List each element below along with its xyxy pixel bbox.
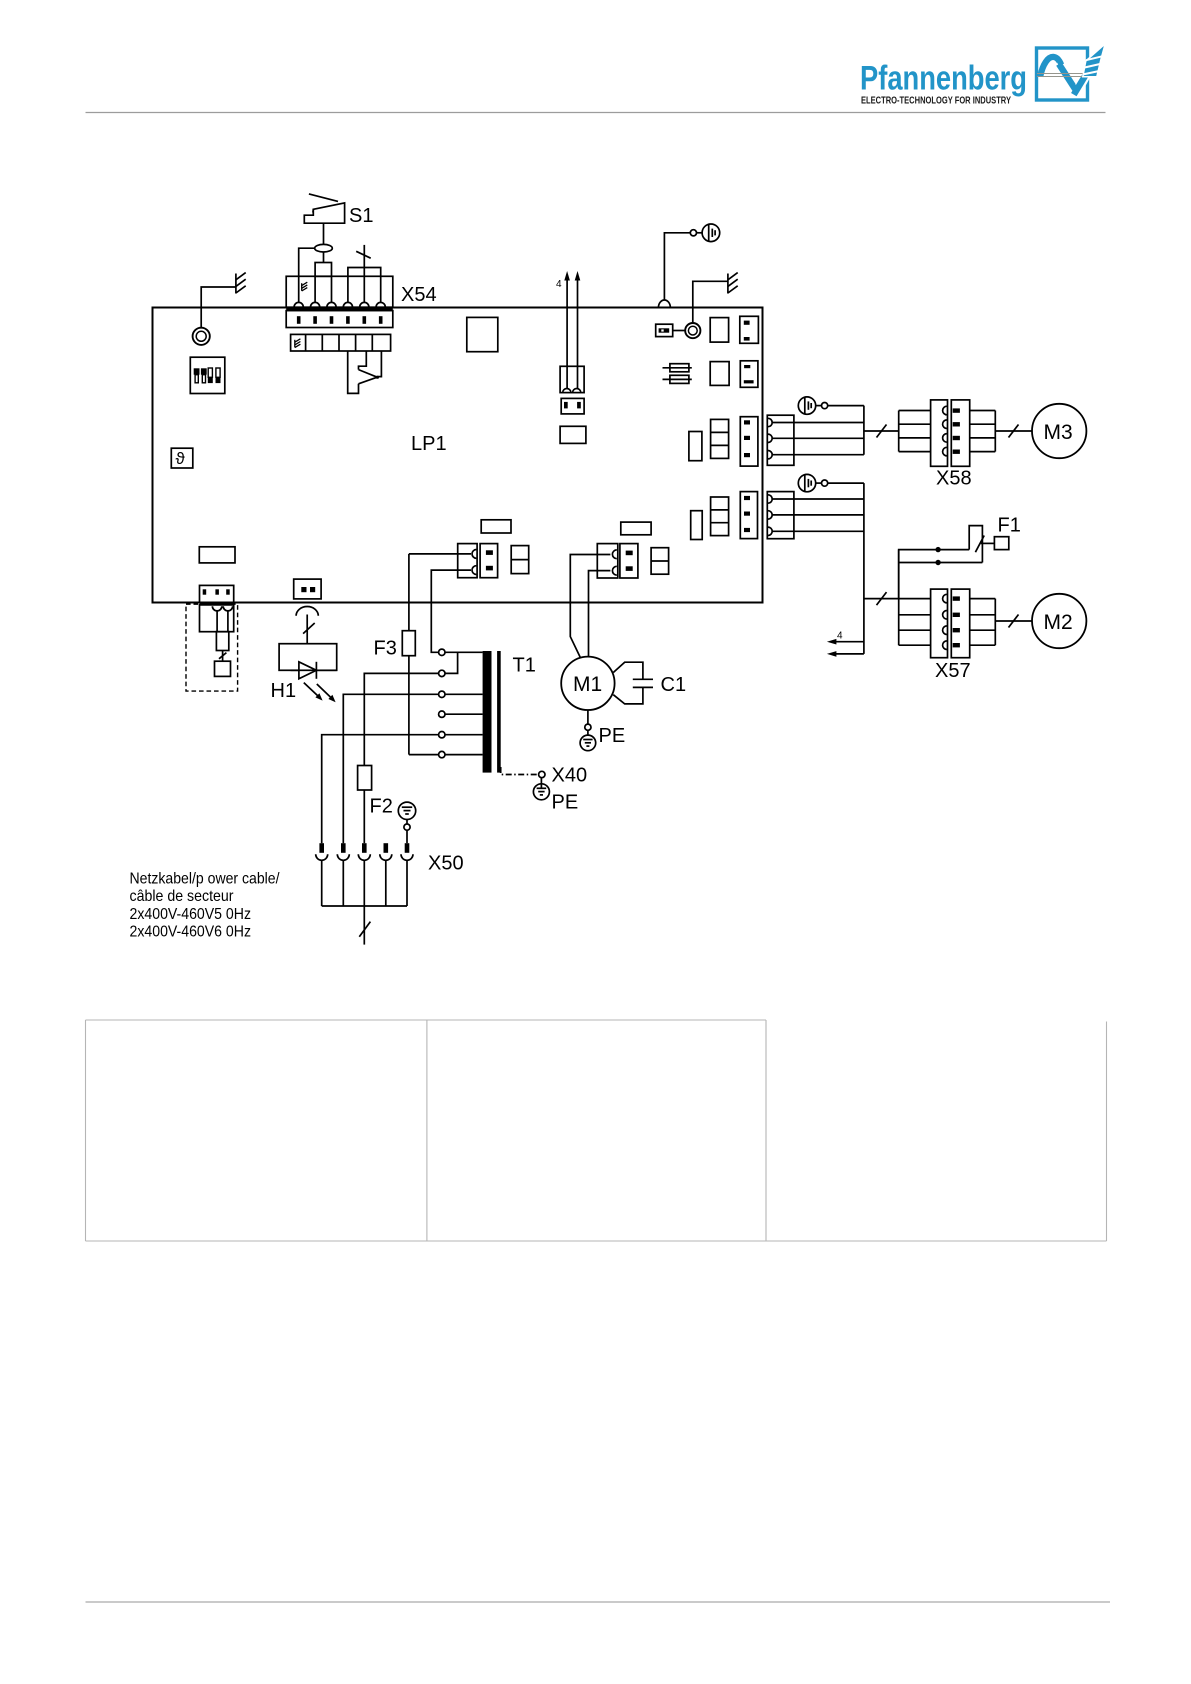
fuse F2 — [358, 766, 372, 791]
earth PE at M1 — [580, 710, 596, 751]
relay contact below strip — [348, 351, 382, 393]
terminal column row4 — [711, 497, 729, 536]
motor M2 — [1032, 594, 1086, 648]
transformer T1 windings — [483, 651, 492, 773]
chassis ground glyph in X54 — [302, 282, 308, 291]
Pfannenberg wordmark — [860, 60, 1027, 107]
svg-text:F2: F2 — [370, 796, 393, 818]
connector row2 — [740, 361, 758, 388]
sensor plug square — [215, 661, 231, 676]
thermal switch lever over X54 — [363, 245, 365, 303]
wires group1 to bus — [772, 422, 864, 424]
screw eyelet left — [193, 328, 210, 345]
lamp connector H1 on edge — [294, 579, 321, 599]
power cable bus — [322, 860, 407, 944]
fuse F3 — [408, 554, 410, 631]
svg-text:M2: M2 — [1044, 611, 1073, 634]
sensor body — [216, 632, 228, 651]
sensor lead with cable mark — [222, 651, 224, 662]
circuit board LP1 — [153, 308, 763, 603]
relay row3 — [689, 432, 702, 461]
connector row1 — [740, 316, 759, 343]
thermal contact F1 — [969, 526, 982, 563]
connector male B — [620, 544, 638, 578]
cable to X58 — [864, 430, 899, 432]
square component on board — [467, 317, 498, 351]
wire jumper to eyelet — [673, 330, 686, 332]
wire pedestal pin3 — [331, 276, 333, 303]
buzzer top — [697, 224, 720, 242]
terminal X40 — [539, 771, 545, 777]
svg-text:X50: X50 — [428, 853, 464, 875]
component label rect B — [621, 522, 651, 535]
pedestal jumper pins2-3 — [315, 263, 331, 277]
connector X58 — [931, 400, 948, 466]
bus group2 — [863, 483, 865, 654]
svg-text:4: 4 — [837, 631, 843, 642]
svg-text:2x400V-460V6 0Hz: 2x400V-460V6 0Hz — [130, 924, 252, 941]
wire ellipse to X54 pin1 — [299, 248, 315, 303]
cable to X57 — [864, 598, 931, 600]
connector male A — [480, 544, 498, 578]
earth wire top-right — [693, 281, 728, 323]
header rule — [86, 112, 1106, 114]
LED H1 — [291, 662, 337, 679]
svg-text:PE: PE — [599, 725, 626, 747]
buzzer group1 — [798, 397, 821, 414]
X58 comb right — [994, 411, 996, 452]
relay row4 — [691, 511, 703, 540]
tap wires to core — [445, 652, 483, 754]
fan socket group 2 — [767, 492, 794, 539]
logo wave mark — [1040, 57, 1061, 77]
chassis ground glyph in strip — [295, 339, 301, 348]
DIP switch block — [190, 357, 225, 393]
wire tap3 to X50 pin2 — [343, 694, 438, 843]
earth wire top-left — [201, 287, 236, 328]
svg-text:X54: X54 — [401, 284, 437, 306]
footer rule — [86, 1601, 1111, 1603]
chassis ground top-right — [728, 273, 738, 294]
svg-text:ELECTRO-TECHNOLOGY FOR INDUSTR: ELECTRO-TECHNOLOGY FOR INDUSTRY — [861, 95, 1011, 107]
branch to F1 — [899, 550, 970, 599]
lamp socket arc — [296, 607, 318, 616]
connector row4 — [740, 492, 757, 539]
buzzer group2 — [798, 474, 821, 491]
wire ellipse to pedestal — [323, 252, 325, 263]
terminal column row3 — [711, 419, 729, 458]
svg-text:Netzkabel/p ower cable/: Netzkabel/p ower cable/ — [130, 871, 280, 888]
svg-text:M1: M1 — [573, 673, 602, 696]
logo wave rise — [1080, 65, 1092, 87]
legend table — [86, 1020, 1107, 1241]
power cable caption — [130, 871, 280, 941]
svg-text:2x400V-460V5 0Hz: 2x400V-460V5 0Hz — [130, 906, 252, 923]
X54 male pins — [297, 316, 383, 324]
terminal pair B — [651, 548, 669, 575]
F1 body — [994, 537, 1008, 550]
signal arrows group2 — [827, 639, 864, 657]
wires group2 to bus — [772, 498, 864, 500]
connector male 2pos — [561, 398, 584, 414]
X54 terminal strip row — [291, 334, 391, 351]
svg-text:H1: H1 — [271, 680, 297, 702]
wire B lower to M1 — [589, 571, 611, 657]
mating bar left connector — [200, 602, 234, 605]
svg-text:Pfannenberg: Pfannenberg — [860, 60, 1027, 98]
svg-text:T1: T1 — [513, 655, 536, 677]
svg-text:X58: X58 — [936, 468, 972, 490]
wires to sensor — [216, 611, 218, 632]
connector 3pos on edge — [200, 585, 234, 602]
terminal pair A — [511, 546, 529, 574]
capacitor C1 — [613, 662, 653, 704]
svg-text:S1: S1 — [349, 205, 373, 227]
X54 male housing — [286, 311, 393, 328]
svg-text:X40: X40 — [552, 765, 588, 787]
wire pedestal pin2 — [314, 276, 316, 303]
logo mid gray lines — [1037, 74, 1087, 77]
X58 comb left — [898, 411, 900, 452]
motor M1 — [561, 657, 614, 710]
LED emission arrows — [304, 683, 336, 703]
X54 socket arcs — [294, 302, 385, 307]
svg-text:câble de secteur: câble de secteur — [130, 888, 235, 905]
dash-dot lead to X40 — [501, 767, 539, 775]
wire buzzer to board — [664, 233, 690, 300]
svg-text:F1: F1 — [998, 515, 1021, 537]
current transformer ellipse — [315, 244, 333, 252]
relay row1 — [710, 318, 728, 343]
svg-text:PE: PE — [552, 792, 579, 814]
lamp arc on board edge — [658, 300, 670, 308]
screw eyelet right — [685, 323, 700, 338]
component label rect A — [481, 520, 511, 533]
wire to lamp with cable mark — [306, 615, 308, 644]
svg-text:4: 4 — [556, 279, 562, 290]
connector row3 — [740, 417, 758, 466]
connector female 2pos — [560, 366, 584, 392]
bus group1 — [863, 406, 865, 455]
logo wave notch — [1054, 63, 1063, 78]
logo square — [1037, 48, 1088, 100]
svg-text:M3: M3 — [1044, 421, 1073, 444]
relay row2 — [710, 362, 729, 386]
cable to M3 — [995, 430, 1032, 432]
cable to M2 — [995, 620, 1032, 622]
buzzer terminal circle — [690, 230, 696, 236]
power connector X50 — [319, 843, 409, 853]
logo wave diagonal — [1059, 64, 1076, 91]
fan socket group 1 — [767, 415, 794, 465]
jumper component — [656, 324, 673, 336]
thermostat symbol — [171, 448, 193, 468]
wire tap2 to F2 — [364, 673, 438, 765]
signal arrows to controller — [564, 271, 580, 389]
connector X54 female housing — [286, 276, 393, 307]
X57 comb right — [994, 599, 996, 646]
wire S1 to ellipse — [323, 223, 325, 244]
svg-text:F3: F3 — [374, 638, 397, 660]
svg-text:C1: C1 — [661, 674, 687, 696]
wire A lower to T1 tap1 — [431, 570, 471, 652]
dashed enclosure — [186, 604, 238, 691]
rect above left connector — [199, 547, 235, 563]
svg-text:ϑ: ϑ — [176, 449, 186, 468]
chassis ground top-left — [236, 273, 246, 294]
wire B upper to M1 — [570, 555, 610, 658]
connector female B — [597, 544, 618, 578]
logo flag quill — [1083, 45, 1105, 77]
svg-text:LP1: LP1 — [411, 433, 447, 455]
socket cups — [212, 606, 221, 611]
connector X57 — [931, 589, 948, 658]
X57 comb left — [898, 550, 900, 646]
svg-text:X57: X57 — [935, 660, 971, 682]
transformer T1 primary taps — [439, 649, 445, 758]
motor M3 — [1032, 404, 1086, 458]
switch S1 — [304, 194, 344, 223]
wire A upper to F3 — [409, 553, 471, 555]
wire tap5 to X50 pin1 — [322, 735, 439, 844]
lamp H1 housing — [279, 644, 337, 671]
earth PE at X50 — [398, 802, 415, 843]
fuse pair on board — [663, 364, 692, 384]
X54 mating bar — [286, 307, 393, 311]
component rect below controller connector — [560, 426, 586, 443]
earth PE at X40 — [540, 778, 542, 784]
female housing below edge — [200, 605, 234, 632]
bracket pins4-6 — [348, 268, 381, 303]
connector female A — [458, 544, 477, 578]
